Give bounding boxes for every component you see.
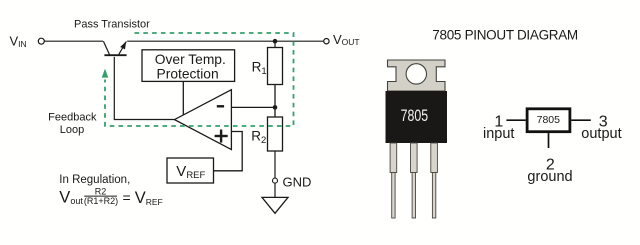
svg-text:Protection: Protection (157, 67, 219, 82)
transistor Q1 collector lead (103, 41, 109, 54)
svg-text:GND: GND (283, 175, 312, 190)
transistor Q1 emitter lead (119, 42, 127, 55)
resistor R1 (268, 48, 283, 85)
over temperature protection box U2 (142, 50, 235, 82)
op-amp plus sign (215, 135, 228, 137)
wire R2 to ground terminal (274, 151, 276, 178)
svg-text:ground: ground (527, 169, 572, 185)
pin 1 lead (506, 119, 525, 121)
feedback loop arrow (102, 69, 109, 78)
ground symbol (262, 197, 288, 213)
wire transistor to VOUT (127, 40, 323, 42)
svg-text:7805: 7805 (401, 107, 429, 125)
svg-text:output: output (581, 126, 621, 142)
wire terminal to ground symbol (274, 183, 276, 197)
junction dot output/R1 (273, 39, 278, 44)
svg-text:In Regulation,: In Regulation, (59, 174, 130, 186)
resistor R2 (268, 117, 283, 151)
wire R1 to R2 (274, 85, 276, 118)
wire junction to R1 (274, 41, 276, 47)
wire input to transistor (44, 40, 103, 42)
svg-text:Pass Transistor: Pass Transistor (74, 18, 150, 30)
feedback loop dashed outline (105, 33, 294, 126)
wire over-temp box to op-amp (182, 81, 184, 115)
svg-text:input: input (483, 126, 514, 142)
TO-220 leg 1 (390, 143, 397, 218)
pin 3 lead (571, 119, 591, 121)
TO-220 package body (386, 91, 448, 143)
svg-text:7805: 7805 (537, 114, 561, 126)
svg-text:(R1+R2): (R1+R2) (84, 196, 118, 206)
wire op-amp output to transistor base (114, 57, 174, 120)
voltage reference box VREF (167, 158, 214, 183)
wire non-inverting input to VREF (214, 132, 243, 171)
pin 2 lead (548, 133, 550, 148)
svg-text:Loop: Loop (60, 124, 84, 136)
svg-text:R2: R2 (95, 186, 107, 196)
TO-220 package tab (388, 60, 446, 91)
op-amp U1 error amplifier (175, 90, 232, 150)
input terminal (38, 38, 44, 44)
svg-text:Feedback: Feedback (48, 112, 97, 124)
TO-220 leg 3 (431, 143, 438, 218)
svg-text:=: = (123, 189, 131, 205)
pinout symbol box U3 (527, 109, 570, 132)
transistor Q1 base bar (104, 54, 126, 56)
output terminal (324, 39, 329, 44)
transistor Q1 emitter arrow (120, 41, 126, 49)
junction dot feedback node (273, 105, 278, 110)
TO-220 leg 2 (411, 143, 418, 218)
op-amp minus sign (217, 105, 224, 107)
ground terminal circle (273, 178, 278, 183)
wire inverting input to feedback node (231, 106, 275, 108)
svg-text:Over Temp.: Over Temp. (155, 52, 226, 67)
TO-220 mounting hole (406, 64, 426, 84)
svg-text:7805 PINOUT DIAGRAM: 7805 PINOUT DIAGRAM (432, 27, 578, 42)
